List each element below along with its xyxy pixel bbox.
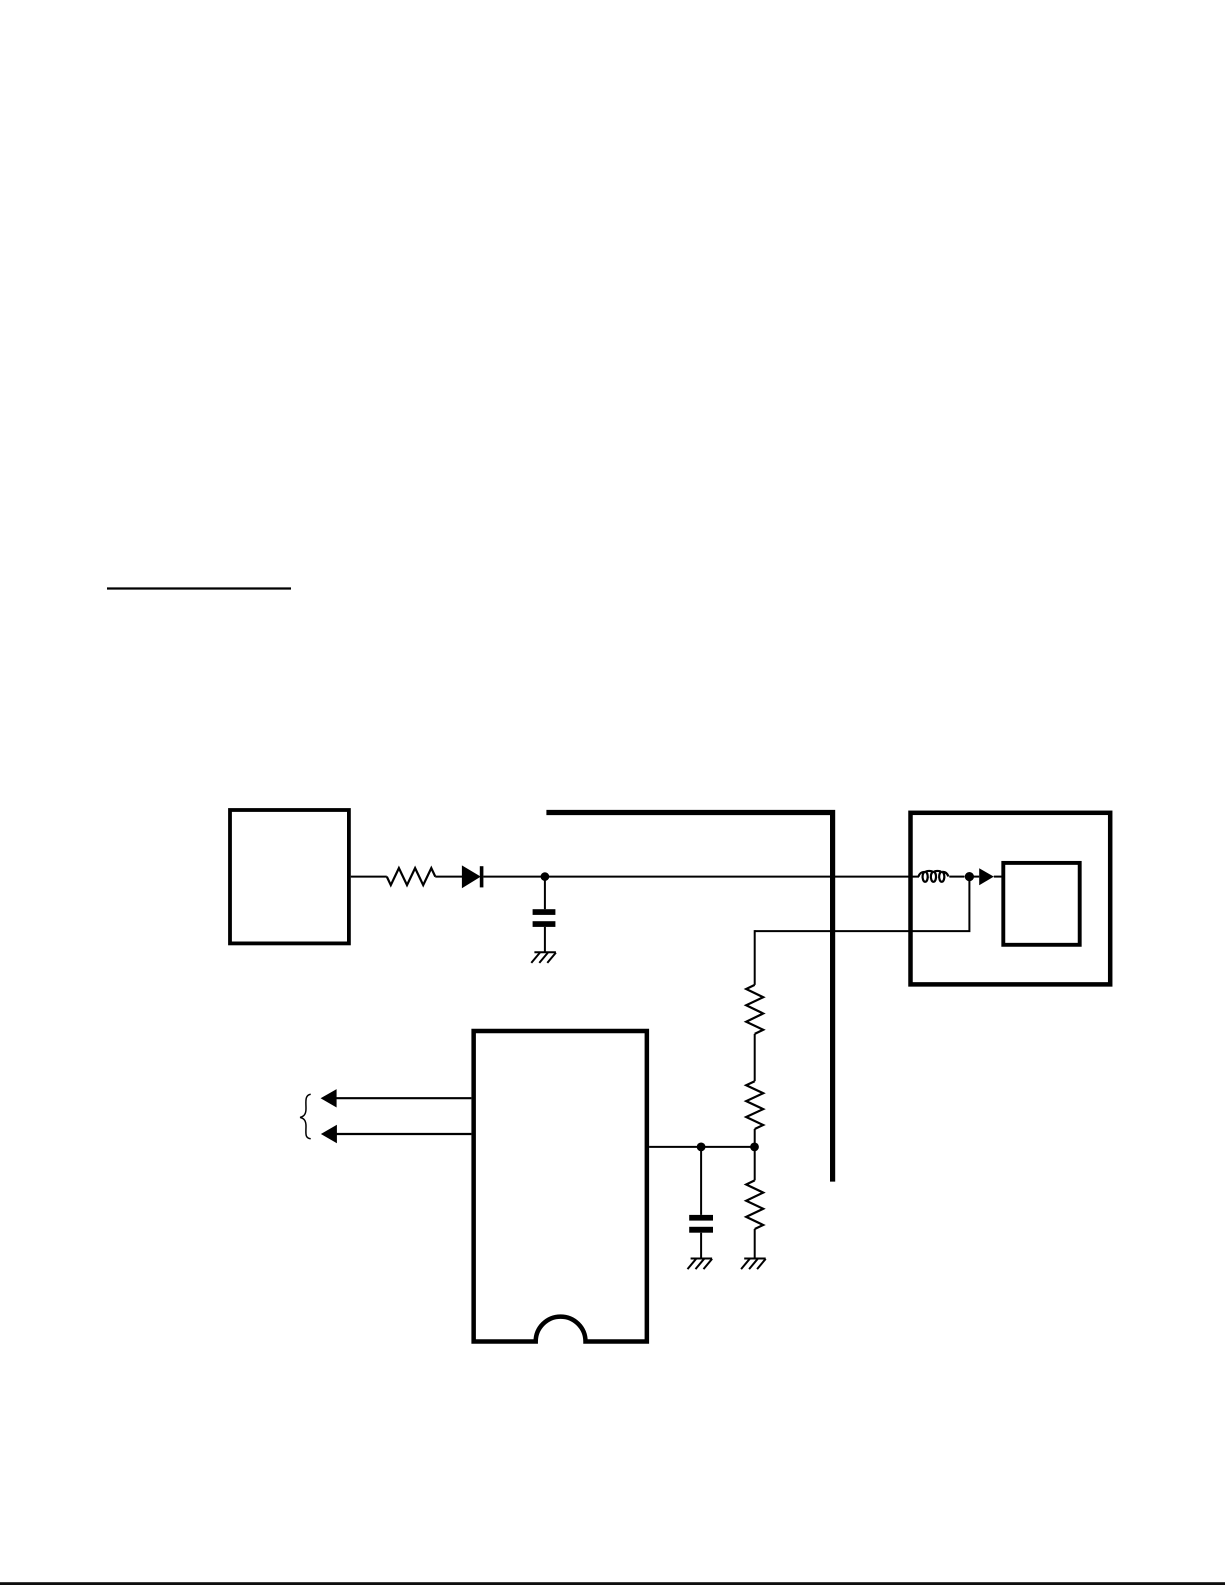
wire U4 to divider node: [649, 1146, 755, 1148]
wire C1 to ground: [544, 927, 546, 952]
resistor R2 (vertical, top): [746, 985, 763, 1034]
wire down to C1: [544, 877, 546, 910]
node junction dot (C1 tap): [541, 872, 550, 881]
wire down to R2: [754, 930, 756, 985]
capacitor C2: [689, 1215, 713, 1221]
resistor R3 (vertical, middle): [746, 1081, 763, 1129]
wire divider node down to R4: [754, 1147, 756, 1181]
arrow out 2: [334, 1133, 471, 1135]
node dot (divider): [750, 1143, 759, 1152]
wire L1 to node: [949, 876, 964, 878]
diode D1: [462, 866, 479, 887]
wire node down and left to divider: [755, 877, 969, 932]
box U3 (inner block of U2): [1003, 863, 1079, 945]
wire C2 to ground: [700, 1233, 702, 1259]
ground GND2: [688, 1259, 713, 1270]
arrow into inner box: [979, 868, 994, 885]
node dot (C2 tap): [697, 1143, 706, 1152]
node junction dot (inside U2): [965, 872, 974, 881]
box U4 (lower block with notch): [474, 1031, 647, 1342]
box U1 (top-left block): [230, 810, 349, 943]
underline (blank heading): [107, 587, 291, 589]
page bottom scan edge: [0, 1582, 1225, 1585]
wire R3 to node row: [754, 1129, 756, 1148]
wire down to C2: [700, 1147, 702, 1215]
inductor L1: [918, 871, 948, 882]
ground GND3: [741, 1259, 766, 1270]
wire node to arrow: [969, 876, 979, 878]
ground GND1: [531, 952, 556, 963]
brace: [300, 1094, 311, 1139]
capacitor C1: [533, 909, 556, 915]
wire R2 to R3: [754, 1034, 756, 1081]
resistor R4 (vertical, bottom): [746, 1180, 763, 1229]
thick supply bus (top rail + vertical drop): [546, 813, 832, 1182]
wire U1 to R1: [351, 876, 387, 878]
wire R4 to ground: [754, 1229, 756, 1259]
wire R1 to D1: [435, 876, 462, 878]
resistor R1 (horizontal): [387, 868, 436, 885]
wire D1 to inductor (long): [483, 876, 919, 878]
arrow out 1: [334, 1097, 471, 1099]
box U2 (top-right outer block): [911, 813, 1111, 985]
